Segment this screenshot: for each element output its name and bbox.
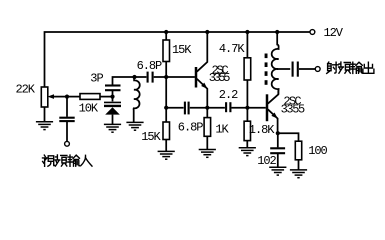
svg-text:4.7K: 4.7K [219,42,245,56]
svg-text:1.8K: 1.8K [249,123,275,137]
svg-text:2.2: 2.2 [219,88,238,102]
svg-text:15K: 15K [141,130,161,144]
svg-text:12V: 12V [324,26,344,40]
svg-text:6.8P: 6.8P [178,121,203,135]
svg-text:22K: 22K [16,83,36,97]
svg-text:100: 100 [308,144,327,158]
svg-text:3355: 3355 [209,71,230,85]
svg-text:6.8P: 6.8P [137,59,162,73]
svg-text:3355: 3355 [281,102,305,116]
svg-text:15K: 15K [172,43,192,57]
svg-text:102: 102 [257,154,276,168]
svg-text:10K: 10K [79,102,99,116]
svg-text:1K: 1K [215,123,229,137]
svg-text:3P: 3P [90,72,103,86]
